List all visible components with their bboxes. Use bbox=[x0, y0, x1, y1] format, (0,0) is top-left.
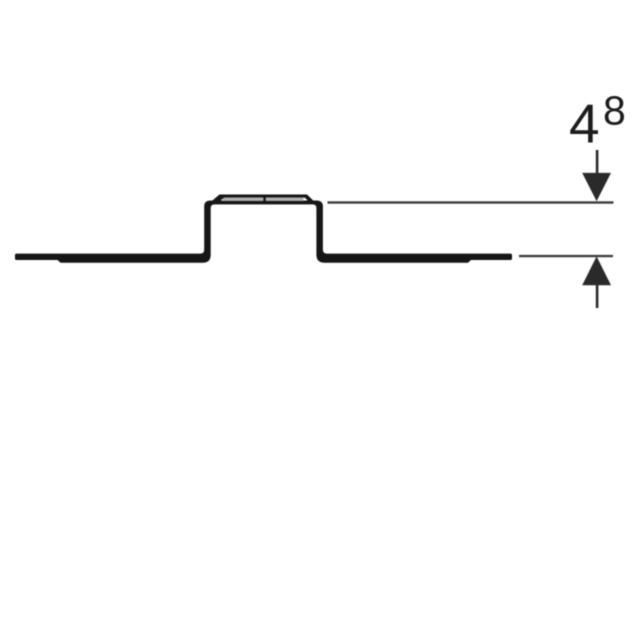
dimension arrow down (stem) bbox=[596, 150, 599, 174]
lower extension line (flange level) bbox=[519, 255, 613, 257]
upper extension line (top of hat) bbox=[328, 201, 614, 203]
svg-text:8: 8 bbox=[603, 88, 626, 134]
gap shading under top cover strip bbox=[223, 198, 304, 201]
top cover strip (lid) on hat with centre seam tick bbox=[212, 195, 315, 202]
dimension arrow up (head) bbox=[582, 256, 611, 285]
profile sheet cross-section (hat profile) bbox=[15, 201, 512, 263]
svg-text:4: 4 bbox=[569, 92, 600, 154]
dimension arrow down (head) bbox=[582, 173, 611, 201]
dimension arrow up (stem) bbox=[596, 285, 599, 308]
